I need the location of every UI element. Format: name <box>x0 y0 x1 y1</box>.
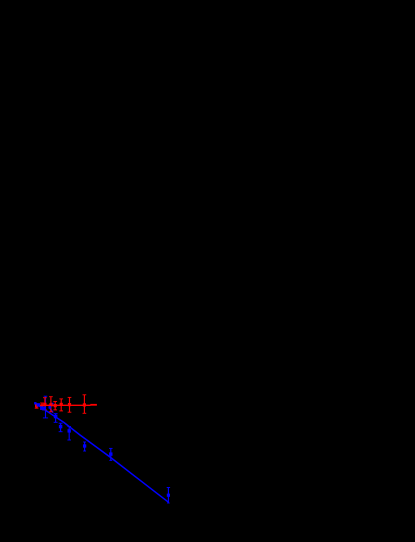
blue errorbar 6 <box>54 414 58 423</box>
blue marker 4 <box>42 407 46 411</box>
blue marker 2 <box>37 403 40 406</box>
blue errorbar 4 <box>43 396 48 418</box>
red point 8 <box>83 395 87 414</box>
blue marker 7 <box>59 425 62 428</box>
red point 4 <box>49 397 53 412</box>
red point 2 <box>40 403 44 409</box>
blue marker 10 <box>109 452 112 455</box>
red point 3 <box>43 398 47 410</box>
blue marker 3 <box>40 406 43 409</box>
red baseline end segment <box>90 404 97 406</box>
blue small errorbar stub <box>51 403 53 406</box>
blue errorbar 9 <box>83 442 86 451</box>
red point 1 <box>35 404 39 408</box>
blue marker 8 <box>68 429 71 432</box>
blue errorbar 11 <box>167 488 170 504</box>
blue data segment <box>49 407 53 413</box>
blue errorbar 7 <box>59 423 63 432</box>
blue fit line <box>35 403 169 503</box>
blue marker 1 <box>34 402 36 404</box>
blue marker 9 <box>83 444 86 447</box>
blue marker 11 <box>167 494 170 497</box>
blue marker 6 <box>54 415 58 419</box>
blue errorbar 10 <box>109 448 113 460</box>
blue marker 5 <box>49 406 52 409</box>
red point 7 <box>68 397 72 412</box>
red baseline <box>36 404 90 406</box>
blue errorbar 8 <box>67 427 71 441</box>
red point 6 <box>59 399 63 411</box>
red point 5 <box>53 402 57 410</box>
